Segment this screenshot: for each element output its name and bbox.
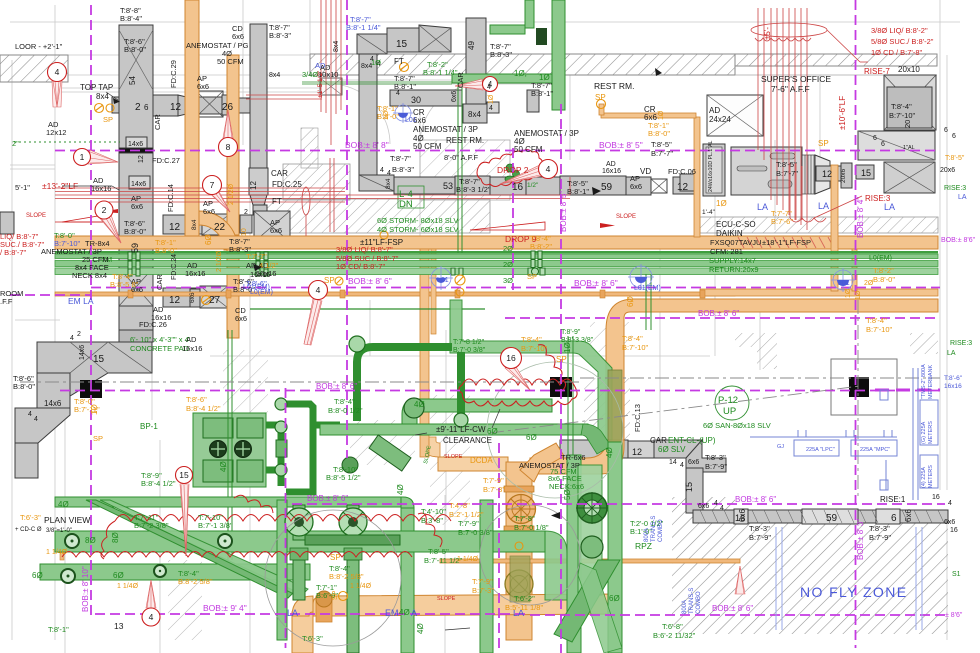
svg-text:59: 59 <box>826 513 838 524</box>
svg-text:16: 16 <box>506 353 516 363</box>
svg-text:20: 20 <box>903 120 912 128</box>
svg-text:FT: FT <box>272 197 282 206</box>
svg-text:1 1/4Ø: 1 1/4Ø <box>350 583 372 590</box>
svg-text:B:7'-9": B:7'-9" <box>749 533 771 542</box>
svg-text:6Ø: 6Ø <box>626 296 635 307</box>
svg-text:T:4'-8": T:4'-8" <box>449 501 470 510</box>
svg-text:1Ø: 1Ø <box>658 110 665 120</box>
svg-text:B:7'-9": B:7'-9" <box>705 462 727 471</box>
svg-text:BOB:± 8' 6": BOB:± 8' 6" <box>307 494 348 503</box>
svg-text:L01: L01 <box>838 280 850 287</box>
svg-text:"TMS-2" 800A: "TMS-2" 800A <box>921 364 927 399</box>
svg-text:B:2'-1 1/2": B:2'-1 1/2" <box>449 510 484 519</box>
right orange band A <box>700 289 938 296</box>
svg-text:B:8'-0": B:8'-0" <box>13 382 35 391</box>
svg-text:LA: LA <box>287 608 298 618</box>
olive overlap where green rides orange vertical <box>608 370 622 445</box>
duct D1 vertical main <box>119 25 153 330</box>
svg-text:1/2": 1/2" <box>527 182 539 189</box>
svg-text:B:8'-4 1/2": B:8'-4 1/2" <box>186 404 221 413</box>
svg-text:AD: AD <box>709 106 720 115</box>
svg-text:B:7'-3": B:7'-3" <box>472 586 494 595</box>
structural column A <box>80 380 102 398</box>
svg-text:P-12: P-12 <box>718 395 738 406</box>
svg-text:PLAN VIEW: PLAN VIEW <box>44 515 90 525</box>
svg-text:FXSQ07TAVJU: FXSQ07TAVJU <box>710 238 761 247</box>
svg-text:4Ø: 4Ø <box>58 500 69 509</box>
FCU coil section <box>703 144 725 196</box>
svg-text:RISE:3: RISE:3 <box>950 340 972 347</box>
svg-text:T:8'-9": T:8'-9" <box>561 329 581 336</box>
svg-text:±9'-11"LF-CW: ±9'-11"LF-CW <box>436 425 486 434</box>
svg-text:54: 54 <box>128 76 137 85</box>
svg-text:BOB:± 8' 6": BOB:± 8' 6" <box>735 495 776 504</box>
svg-text:T:4'-10": T:4'-10" <box>421 507 446 516</box>
svg-text:6x6: 6x6 <box>630 182 642 191</box>
svg-text:1 1/4Ø: 1 1/4Ø <box>457 556 479 563</box>
svg-text:6x6: 6x6 <box>189 292 196 303</box>
svg-text:59: 59 <box>601 182 613 193</box>
wide diagonal pipes <box>86 500 295 598</box>
svg-text:1Ø: 1Ø <box>855 290 862 300</box>
svg-text:B:7'-0 3/8": B:7'-0 3/8" <box>453 347 486 354</box>
svg-text:REST RM.: REST RM. <box>446 136 484 145</box>
svg-text:6x6: 6x6 <box>451 91 458 102</box>
svg-text:12: 12 <box>169 295 181 306</box>
vertical green pair bottom middle <box>567 455 581 653</box>
svg-text:16x16: 16x16 <box>944 383 962 390</box>
svg-text:B:8'-0 1/2": B:8'-0 1/2" <box>328 406 363 415</box>
svg-text:1Ø: 1Ø <box>539 73 550 82</box>
svg-text:± 8'6": ± 8'6" <box>945 612 963 619</box>
svg-text:B:8'-0": B:8'-0" <box>124 227 146 236</box>
V46 duct <box>359 35 377 175</box>
svg-text:B:8'-1": B:8'-1" <box>567 187 589 196</box>
H duct 30 y90 <box>390 90 462 106</box>
svg-text:FD:C.24: FD:C.24 <box>171 254 178 280</box>
svg-text:30: 30 <box>411 95 421 105</box>
vertical orange pipe x506 down <box>506 462 532 640</box>
red lines to RISE3 <box>790 218 826 222</box>
svg-text:B:8'-2": B:8'-2" <box>530 242 552 251</box>
big quarter green elbow bottom middle (x545-625,y555-640) diagonal <box>554 560 620 642</box>
green horizontal band3 y564-580 <box>40 564 310 580</box>
svg-text:T:7'-7": T:7'-7" <box>246 252 267 261</box>
wavy red cloud along grid line <box>459 379 577 406</box>
svg-text:L0(EM): L0(EM) <box>869 255 892 262</box>
svg-text:1"AL: 1"AL <box>903 145 915 151</box>
svg-text:CAR: CAR <box>271 169 288 178</box>
svg-text:B:7'-7": B:7'-7" <box>776 169 798 178</box>
svg-text:BOB:± 8' 10": BOB:± 8' 10" <box>81 566 90 612</box>
svg-text:6x6: 6x6 <box>131 202 143 211</box>
svg-text:B:8'-3": B:8'-3" <box>490 50 512 59</box>
svg-text:T:8'-4": T:8'-4" <box>622 334 643 343</box>
top cluster boxes <box>357 34 387 54</box>
H duct run y177 x394-700 <box>394 177 455 194</box>
svg-text:T:8'-6": T:8'-6" <box>246 279 267 288</box>
thin orange pipe y547 <box>60 546 480 550</box>
svg-text:2Ø: 2Ø <box>864 280 874 287</box>
svg-text:T:8'-6": T:8'-6" <box>944 375 963 382</box>
column outline boxes <box>831 359 897 415</box>
svg-text:B:8'-5 8": B:8'-5 8" <box>110 280 139 289</box>
svg-text:14: 14 <box>669 459 677 466</box>
svg-text:±1'-5 1/2": ±1'-5 1/2" <box>317 70 324 98</box>
svg-text:4Ø: 4Ø <box>605 447 614 458</box>
svg-text:12: 12 <box>169 222 181 233</box>
svg-text:8: 8 <box>226 142 231 152</box>
svg-text:26: 26 <box>222 102 234 113</box>
svg-text:59: 59 <box>130 243 140 253</box>
svg-text:B:7'-0 3/8": B:7'-0 3/8" <box>458 528 493 537</box>
svg-text:1'-4": 1'-4" <box>702 209 716 216</box>
svg-text:BOB:± 8' 6": BOB:± 8' 6" <box>348 276 392 286</box>
svg-text:1Ø: 1Ø <box>383 110 390 120</box>
svg-text:6Ø: 6Ø <box>32 571 43 580</box>
AD 10x10 box <box>320 78 342 95</box>
small orange risers right <box>831 165 838 291</box>
svg-text:4: 4 <box>948 500 952 507</box>
svg-text:7: 7 <box>210 180 215 190</box>
green dotted line top-left <box>14 141 120 143</box>
svg-text:L0(EM): L0(EM) <box>250 289 273 296</box>
svg-text:2": 2" <box>12 139 19 148</box>
svg-text:800A: 800A <box>682 600 688 614</box>
FCU main unit <box>731 147 802 195</box>
svg-text:4: 4 <box>28 411 32 418</box>
svg-text:CLEARANCE: CLEARANCE <box>443 436 492 445</box>
big hatch bottom right : no-fly zone <box>672 497 948 634</box>
svg-text:CAR: CAR <box>153 114 162 130</box>
thin green line y309 <box>250 308 485 310</box>
svg-text:16x16: 16x16 <box>182 344 202 353</box>
skid right piping loop <box>266 404 340 492</box>
svg-text:49: 49 <box>467 41 476 50</box>
svg-text:3Ø: 3Ø <box>503 276 513 285</box>
svg-text:SLOPE: SLOPE <box>616 214 636 220</box>
svg-text:TRANS-S: TRANS-S <box>651 516 657 542</box>
svg-text:B:8'-0": B:8'-0" <box>124 45 146 54</box>
svg-text:T:8'-6": T:8'-6" <box>186 395 207 404</box>
mid right duct pieces near REST RM <box>680 174 697 191</box>
svg-text:16: 16 <box>932 494 940 501</box>
svg-text:1Ø CD/ B:8'-7": 1Ø CD/ B:8'-7" <box>336 262 385 271</box>
svg-text:4Ø: 4Ø <box>396 484 405 495</box>
svg-text:225A "LPC": 225A "LPC" <box>806 447 835 453</box>
svg-text:225A "MPC": 225A "MPC" <box>860 447 890 453</box>
svg-text:SP: SP <box>818 139 829 148</box>
svg-text:SUPPLY:14x7: SUPPLY:14x7 <box>709 256 756 265</box>
svg-text:LA: LA <box>884 202 895 212</box>
svg-text:4: 4 <box>489 105 493 112</box>
svg-text:RISE-7: RISE-7 <box>864 67 890 76</box>
svg-text:6: 6 <box>144 103 149 112</box>
svg-text:DROP 2: DROP 2 <box>497 165 529 175</box>
small top-middle duct bits around x530 <box>527 90 539 112</box>
main horizontal green bands <box>55 251 938 253</box>
wall band middle <box>283 164 350 200</box>
svg-text:T:8'-3": T:8'-3" <box>869 524 890 533</box>
svg-text:16: 16 <box>512 182 524 193</box>
svg-text:4Ø: 4Ø <box>414 400 425 409</box>
svg-text:2: 2 <box>102 205 107 215</box>
svg-text:B:3'-8": B:3'-8" <box>421 516 443 525</box>
svg-text:FD:C.13: FD:C.13 <box>633 404 642 432</box>
green verticals upper middle <box>552 0 565 110</box>
svg-text:6Ø: 6Ø <box>609 594 620 603</box>
svg-text:TOP TAP: TOP TAP <box>80 83 113 92</box>
vertical duct x250 <box>250 24 267 171</box>
svg-text:6: 6 <box>873 135 877 142</box>
svg-text:B:8'-2 5/8": B:8'-2 5/8" <box>178 577 213 586</box>
svg-text:T:7'-9": T:7'-9" <box>458 519 479 528</box>
svg-text:SP: SP <box>556 355 567 364</box>
svg-text:T:8'-4": T:8'-4" <box>891 102 912 111</box>
svg-text:5'-1": 5'-1" <box>15 183 30 192</box>
svg-text:T:8'-4": T:8'-4" <box>866 316 887 325</box>
small black leader arrows <box>113 68 662 519</box>
svg-text:15: 15 <box>684 482 694 492</box>
svg-text:2 1/2Ø: 2 1/2Ø <box>216 250 223 272</box>
svg-text:6Ø SLV: 6Ø SLV <box>658 445 686 454</box>
svg-text:CONCRETE PAD: CONCRETE PAD <box>130 344 190 353</box>
two big pump circles mid-bottom <box>285 508 313 536</box>
green horizontal y341-353 w/ elbows <box>450 300 612 440</box>
P-12 circle <box>715 386 749 420</box>
svg-text:6x6: 6x6 <box>904 509 913 522</box>
svg-text:BOB:± 8' 5": BOB:± 8' 5" <box>599 140 643 150</box>
green verticals bottom left area <box>277 500 287 640</box>
svg-text:BOB:± 8' 3": BOB:± 8' 3" <box>856 519 865 560</box>
left small boxes row y215 <box>0 212 14 234</box>
svg-text:20x10: 20x10 <box>898 65 920 74</box>
svg-text:4 1/2": 4 1/2" <box>259 261 279 270</box>
orange fittings along thin pipe y292 <box>128 290 705 298</box>
svg-text:SP: SP <box>527 272 537 281</box>
green box around L-4 DN <box>398 186 424 208</box>
svg-text:T:8'-5": T:8'-5" <box>945 155 965 162</box>
AD 24x24 box <box>707 95 763 136</box>
svg-text:8Ø: 8Ø <box>85 536 96 545</box>
svg-text:B:8'-0": B:8'-0" <box>155 246 177 255</box>
svg-text:12: 12 <box>170 102 182 113</box>
svg-text:4: 4 <box>714 500 718 507</box>
svg-text:B:7'-10": B:7'-10" <box>622 343 649 352</box>
blue light rails in no-fly <box>776 527 922 630</box>
svg-text:1Ø CD / B:7'-8": 1Ø CD / B:7'-8" <box>871 48 923 57</box>
svg-text:4Ø: 4Ø <box>399 608 410 617</box>
svg-text:8x4: 8x4 <box>191 219 198 230</box>
svg-text:14x6: 14x6 <box>131 181 146 188</box>
svg-text:T:8'-5": T:8'-5" <box>651 140 672 149</box>
valves under pumps <box>290 548 308 560</box>
svg-text:6x6: 6x6 <box>688 459 699 466</box>
svg-text:B:8'-3 3/8": B:8'-3 3/8" <box>561 337 594 344</box>
svg-text:T:7'-9": T:7'-9" <box>483 476 504 485</box>
svg-text:T:6'-8": T:6'-8" <box>662 622 683 631</box>
svg-text:(G) 225A: (G) 225A <box>921 421 927 444</box>
svg-text:NECK 8x4: NECK 8x4 <box>72 271 107 280</box>
leader thin lines <box>62 92 500 630</box>
svg-text:DAIKIN: DAIKIN <box>716 229 743 238</box>
svg-text:2: 2 <box>135 102 141 113</box>
svg-text:B:8'-4": B:8'-4" <box>120 14 142 23</box>
svg-text:2: 2 <box>77 331 81 338</box>
svg-text:16: 16 <box>950 527 958 534</box>
svg-text:6: 6 <box>881 141 885 148</box>
svg-text:15: 15 <box>93 354 105 365</box>
svg-text:1Ø: 1Ø <box>371 58 381 67</box>
svg-text:4: 4 <box>396 90 400 97</box>
orange bits bottom middle x330 <box>316 596 332 622</box>
svg-text:B:7'-10": B:7'-10" <box>866 325 893 334</box>
svg-text:ANEMOSTAT / 3P: ANEMOSTAT / 3P <box>413 125 478 134</box>
clearance circles thin <box>265 510 401 646</box>
svg-text:B:7'-1 3/8": B:7'-1 3/8" <box>198 521 233 530</box>
svg-text:RISE:3: RISE:3 <box>944 185 966 192</box>
svg-text:T:6'-3": T:6'-3" <box>20 513 41 522</box>
svg-text:20x6: 20x6 <box>940 167 955 174</box>
svg-text:DCDA: DCDA <box>470 456 493 465</box>
vertical orange strip 1 <box>185 0 199 238</box>
meter bank bottom right (blue) <box>750 368 938 500</box>
svg-text:±18'-1"LF-FSP: ±18'-1"LF-FSP <box>762 238 811 247</box>
svg-text:METERS: METERS <box>928 421 934 444</box>
svg-text:6Ø: 6Ø <box>526 433 537 442</box>
svg-text:FD:C.27: FD:C.27 <box>152 156 180 165</box>
dark green riser box <box>536 28 547 45</box>
svg-text:AD: AD <box>606 161 616 168</box>
corner assembly bottom-left of D1 <box>37 342 152 396</box>
svg-text:4: 4 <box>680 462 684 469</box>
svg-text:6x6: 6x6 <box>235 314 247 323</box>
right orange band B with elbow down <box>606 299 938 445</box>
svg-text:4Ø STORM- 6Øx18 SLV: 4Ø STORM- 6Øx18 SLV <box>377 225 458 234</box>
svg-text:RISE:1: RISE:1 <box>880 495 906 504</box>
svg-text:L01: L01 <box>437 277 449 284</box>
svg-text:LA: LA <box>958 194 967 201</box>
svg-text:12: 12 <box>677 182 689 193</box>
svg-text:T:8'-3": T:8'-3" <box>705 453 726 462</box>
svg-text:(4) 225A: (4) 225A <box>921 467 927 488</box>
svg-text:3/8Ø LIQ/ B:8'-2": 3/8Ø LIQ/ B:8'-2" <box>871 26 928 35</box>
svg-text:B:8'-1 1/4": B:8'-1 1/4" <box>346 23 381 32</box>
svg-text:BOB:± 9' 4": BOB:± 9' 4" <box>203 603 247 613</box>
svg-text:LA: LA <box>757 202 768 212</box>
svg-text:SP: SP <box>103 115 113 124</box>
svg-text:16x16: 16x16 <box>250 270 270 279</box>
svg-text:4: 4 <box>55 67 60 77</box>
svg-text:16: 16 <box>735 513 745 523</box>
svg-text:BP-1: BP-1 <box>140 422 158 431</box>
svg-text:8x4: 8x4 <box>468 110 481 119</box>
svg-text:EM LA: EM LA <box>68 296 94 306</box>
svg-text:SLOPE: SLOPE <box>437 596 456 602</box>
svg-text:8x4: 8x4 <box>333 41 340 52</box>
svg-text:6x6: 6x6 <box>197 82 209 91</box>
AP filter box x254 <box>254 211 290 242</box>
svg-text:15: 15 <box>179 470 189 480</box>
SP symbols orange <box>95 63 606 601</box>
svg-text:SP: SP <box>332 590 339 600</box>
svg-text:L01: L01 <box>405 117 417 124</box>
svg-text:6: 6 <box>952 133 956 140</box>
svg-text:FD:C.06: FD:C.06 <box>668 167 696 176</box>
CAR duct bottom middle right <box>560 440 628 458</box>
svg-text:LOOR - +2'-1": LOOR - +2'-1" <box>15 42 63 51</box>
svg-text:CAR: CAR <box>650 436 667 445</box>
svg-text:12: 12 <box>632 447 642 457</box>
svg-text:50 CFM: 50 CFM <box>514 145 543 154</box>
structural column C <box>849 377 869 397</box>
long green horizontal pipe y424-434 <box>320 424 588 435</box>
light orange horizontal y457-471 <box>438 457 508 471</box>
svg-text:B:8'-3 1/2": B:8'-3 1/2" <box>456 185 491 194</box>
svg-text:DN: DN <box>399 199 413 210</box>
svg-text:14x6: 14x6 <box>128 141 143 148</box>
svg-text:1Ø: 1Ø <box>90 404 99 415</box>
svg-text:14x6: 14x6 <box>44 399 62 408</box>
svg-text:SLOPE: SLOPE <box>444 454 463 460</box>
svg-text:13: 13 <box>114 621 124 631</box>
svg-text:GJ: GJ <box>777 444 784 450</box>
svg-text:B:8'-2 5/8": B:8'-2 5/8" <box>329 572 364 581</box>
svg-text:METERS: METERS <box>928 465 934 488</box>
svg-text:B:8'-0": B:8'-0" <box>648 129 670 138</box>
svg-text:±5'-: ±5'- <box>763 27 772 40</box>
svg-text:3/8"=1'-0": 3/8"=1'-0" <box>46 528 72 534</box>
svg-text:4: 4 <box>546 164 551 174</box>
svg-text:22: 22 <box>214 222 226 233</box>
boxes row3 left: 12 / 6x6 / 27 <box>163 288 196 307</box>
svg-text:2Ø: 2Ø <box>503 244 513 253</box>
flex connector <box>802 155 815 194</box>
svg-text:5/8Ø SUC./ B:8'-2": 5/8Ø SUC./ B:8'-2" <box>871 37 934 46</box>
elbow from vertical x606-624 to horizontal going left at y458-474 <box>530 440 624 474</box>
svg-text:SP: SP <box>330 553 341 562</box>
slope arrows <box>55 215 545 230</box>
svg-text:ANEMOSTAT / PG: ANEMOSTAT / PG <box>186 41 249 50</box>
svg-text:CFM: 281: CFM: 281 <box>710 247 743 256</box>
svg-text:6: 6 <box>944 127 948 134</box>
49 vertical duct <box>466 18 486 110</box>
svg-text:UP: UP <box>723 406 736 417</box>
dark green circles bottom-left pipes <box>61 534 232 583</box>
wide green horizontal y533 continuing right to elbow x505 done above; vertical legs from pumps <box>293 505 359 653</box>
svg-text:7'-6" A.F.F: 7'-6" A.F.F <box>771 84 810 94</box>
svg-text:ECU-C-SO: ECU-C-SO <box>716 220 756 229</box>
green network upper pump area (x300-500, y330-420) <box>357 347 461 421</box>
svg-text:6x6: 6x6 <box>698 503 709 510</box>
svg-text:B:8'-3": B:8'-3" <box>392 165 414 174</box>
svg-text:FD:C.25: FD:C.25 <box>272 180 302 189</box>
svg-text:BOB:± 8' 6": BOB:± 8' 6" <box>698 309 739 318</box>
thin green line pair x228 dropping to skid <box>227 330 229 560</box>
svg-text:12x12: 12x12 <box>46 128 66 137</box>
svg-text:SP: SP <box>93 434 103 443</box>
svg-text:BOB:± 8' 6": BOB:± 8' 6" <box>574 278 618 288</box>
svg-text:REST RM.: REST RM. <box>594 81 634 91</box>
orange riser continuing down x227 <box>227 238 239 338</box>
red revision clouds bottom-left <box>62 495 451 559</box>
svg-text:10: 10 <box>241 228 248 236</box>
boxes row2 left: 12 / 8x4 / 22 <box>163 215 196 234</box>
svg-text:B:8'-1": B:8'-1" <box>531 89 553 98</box>
svg-text:L01(EM): L01(EM) <box>634 285 661 292</box>
svg-text:B:7'-3": B:7'-3" <box>483 485 505 494</box>
svg-text:B:7'-10": B:7'-10" <box>521 344 548 353</box>
